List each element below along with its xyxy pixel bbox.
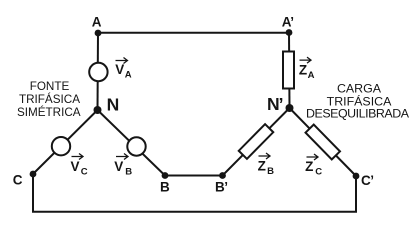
svg-text:C: C (81, 167, 88, 178)
node B junction dot (162, 172, 169, 179)
impedance ZB (rotated rectangle) (239, 124, 274, 159)
svg-text:B: B (125, 167, 132, 178)
svg-text:N’: N’ (267, 94, 283, 114)
svg-text:V: V (71, 159, 80, 174)
svg-text:V: V (114, 159, 123, 174)
caption: CARGA TRIFASICA DESEQUILIBRADA (306, 82, 410, 121)
node C junction dot (30, 171, 37, 178)
value label ZB with phasor arrow (258, 153, 275, 177)
node N' junction dot (286, 104, 294, 112)
voltage source VA (89, 63, 107, 81)
impedance ZC (rotated rectangle) (306, 125, 340, 160)
value label ZA with phasor arrow (299, 57, 315, 81)
wire N to B (through source VB) (98, 110, 166, 176)
svg-text:A: A (125, 70, 132, 81)
wire A' to N' (through impedance ZA) (288, 33, 291, 109)
value label VC with phasor arrow (71, 154, 88, 178)
node A' junction dot (286, 29, 293, 36)
value label VA with phasor arrow (115, 58, 132, 81)
value label VB with phasor arrow (114, 154, 132, 178)
svg-text:A: A (92, 14, 102, 29)
svg-text:B’: B’ (215, 179, 228, 194)
svg-text:FONTE: FONTE (30, 80, 70, 93)
node C' junction dot (353, 173, 360, 180)
svg-text:TRIFÁSICA: TRIFÁSICA (19, 93, 80, 106)
wire N' to C' (through impedance ZC) (290, 108, 357, 176)
node A junction dot (95, 30, 102, 37)
value label ZC with phasor arrow (305, 154, 322, 178)
svg-text:CARGA: CARGA (337, 82, 382, 96)
wire C to C' (bottom phase-C run) (33, 174, 356, 212)
voltage source VB (127, 137, 145, 155)
voltage source VC (52, 137, 70, 155)
svg-text:V: V (115, 62, 124, 77)
svg-text:Z: Z (305, 159, 313, 174)
impedance ZA (rectangle) (283, 52, 294, 89)
svg-text:Z: Z (299, 62, 307, 77)
svg-text:SIMÉTRICA: SIMÉTRICA (17, 106, 81, 119)
svg-text:A’: A’ (282, 15, 294, 30)
svg-text:C’: C’ (361, 173, 374, 188)
svg-text:C: C (13, 173, 23, 188)
caption: FONTE TRIFASICA SIMETRICA (17, 80, 81, 119)
svg-text:C: C (315, 167, 322, 178)
svg-text:B: B (267, 166, 274, 177)
wire A to A' (top phase-A line) (98, 32, 289, 34)
svg-text:Z: Z (258, 158, 266, 173)
svg-text:DESEQUILIBRADA: DESEQUILIBRADA (306, 107, 410, 121)
wire A to N (through source VA) (97, 33, 100, 110)
node B' junction dot (219, 172, 226, 179)
svg-text:N: N (107, 95, 119, 115)
wire B' to N' (through impedance ZB) (223, 108, 290, 176)
node N junction dot (94, 106, 102, 114)
svg-text:A: A (308, 70, 315, 81)
svg-text:B: B (160, 180, 170, 195)
wire B to B' (phase-B line) (165, 175, 223, 177)
wire N to C (through source VC) (33, 110, 98, 174)
